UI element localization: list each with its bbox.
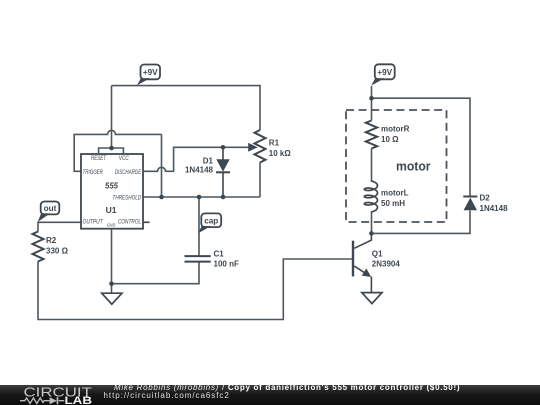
svg-text:10 kΩ: 10 kΩ xyxy=(269,149,292,158)
wire +9V node to D2 top xyxy=(372,98,471,196)
wire cap net: THRESHOLD rail down to C1 top xyxy=(198,197,200,256)
svg-text:100 nF: 100 nF xyxy=(214,260,239,269)
svg-text:+9V: +9V xyxy=(377,68,392,77)
svg-text:U1: U1 xyxy=(106,205,117,215)
svg-text:330 Ω: 330 Ω xyxy=(46,246,69,255)
svg-text:R1: R1 xyxy=(269,138,280,147)
wire DISCHARGE to R1 arrow (with hop over riser) xyxy=(143,147,249,171)
svg-text:motor: motor xyxy=(396,160,431,174)
footer credit line xyxy=(114,383,460,392)
svg-text:GND: GND xyxy=(107,222,116,228)
wire riser from TRIGGER net down to THRESHOLD rail xyxy=(161,134,163,197)
resistor R1 (rheostat with arrow) xyxy=(248,130,291,163)
svg-text:+9V: +9V xyxy=(143,68,158,77)
svg-text:THRESHOLD: THRESHOLD xyxy=(113,196,142,202)
svg-text:1N4148: 1N4148 xyxy=(480,204,509,213)
svg-text:motorL: motorL xyxy=(381,189,409,198)
wire D2 bottom to collector node xyxy=(371,211,470,234)
svg-text:Q1: Q1 xyxy=(372,249,383,258)
svg-text:555: 555 xyxy=(105,181,118,191)
svg-text:motorR: motorR xyxy=(381,125,410,134)
capacitor C1 100 nF xyxy=(185,250,239,269)
node VCC bracket junction xyxy=(109,146,114,151)
net flag cap xyxy=(198,213,221,233)
resistor R2 330 xyxy=(33,232,69,262)
svg-text:DISCHARGE: DISCHARGE xyxy=(115,170,142,176)
svg-text:CONTROL: CONTROL xyxy=(118,220,141,226)
svg-text:TRIGGER: TRIGGER xyxy=(83,170,104,176)
svg-text:50 mH: 50 mH xyxy=(381,199,405,208)
resistor motorR 10 ohm xyxy=(366,121,410,149)
footer url line xyxy=(104,391,230,400)
power flag +9V (right) xyxy=(371,64,394,85)
wire +9V right down to motor xyxy=(371,86,373,121)
node D1 cathode junction xyxy=(221,195,226,200)
ground (555 GND) xyxy=(102,293,122,304)
motor dashed enclosure xyxy=(346,110,447,222)
wire R1 bottom lead xyxy=(259,163,261,198)
op-amp / timer IC U1 555 xyxy=(81,154,150,229)
wire ground node to C1 bottom xyxy=(112,261,200,283)
svg-text:1N4148: 1N4148 xyxy=(185,165,214,174)
svg-text:C1: C1 xyxy=(214,250,225,259)
node trigger/threshold junction xyxy=(159,195,164,200)
wire motorL to collector node xyxy=(371,212,373,233)
wire THRESHOLD rail to R1 bottom xyxy=(143,196,260,198)
svg-text:R2: R2 xyxy=(46,236,57,245)
node motor +9V junction xyxy=(369,96,374,101)
svg-text:10 Ω: 10 Ω xyxy=(381,135,399,144)
wire OUTPUT to R2 top xyxy=(38,222,82,231)
svg-text:cap: cap xyxy=(204,216,218,225)
node collector junction xyxy=(369,231,374,236)
node D1 anode junction xyxy=(221,145,226,150)
wire TRIGGER to vertical riser (with hop over VCC wire) xyxy=(74,130,161,171)
inductor motorL 50 mH xyxy=(364,181,408,212)
wire motorR to motorL xyxy=(371,149,373,182)
svg-text:VCC: VCC xyxy=(119,156,129,162)
svg-text:RESET: RESET xyxy=(91,156,107,162)
wire R2 bottom to Q1 base xyxy=(38,259,353,320)
wire +9V rail left (net VCC) xyxy=(112,86,261,130)
svg-text:OUTPUT: OUTPUT xyxy=(83,220,104,226)
pin CONTROL stub xyxy=(143,221,150,223)
node ground junction xyxy=(109,281,114,286)
wire RESET/VCC top bracket xyxy=(99,148,124,154)
power flag +9V (left) xyxy=(137,65,160,86)
transistor Q1 2N3904 NPN xyxy=(353,233,400,292)
wire VCC vertical drop to 555 bracket xyxy=(111,86,113,148)
svg-text:LAB: LAB xyxy=(65,395,93,405)
node cap junction xyxy=(197,195,202,200)
diode D2 1N4148 (flyback) xyxy=(463,193,508,213)
CircuitLab logo xyxy=(20,384,92,405)
svg-text:out: out xyxy=(44,204,57,213)
ground (Q1 emitter) xyxy=(362,293,382,304)
diode D1 1N4148 xyxy=(185,147,230,197)
svg-text:D1: D1 xyxy=(203,157,214,166)
svg-text:D2: D2 xyxy=(480,193,491,202)
svg-text:2N3904: 2N3904 xyxy=(372,259,401,268)
wire 555 GND down to ground node xyxy=(111,229,113,294)
net flag out xyxy=(38,202,60,222)
